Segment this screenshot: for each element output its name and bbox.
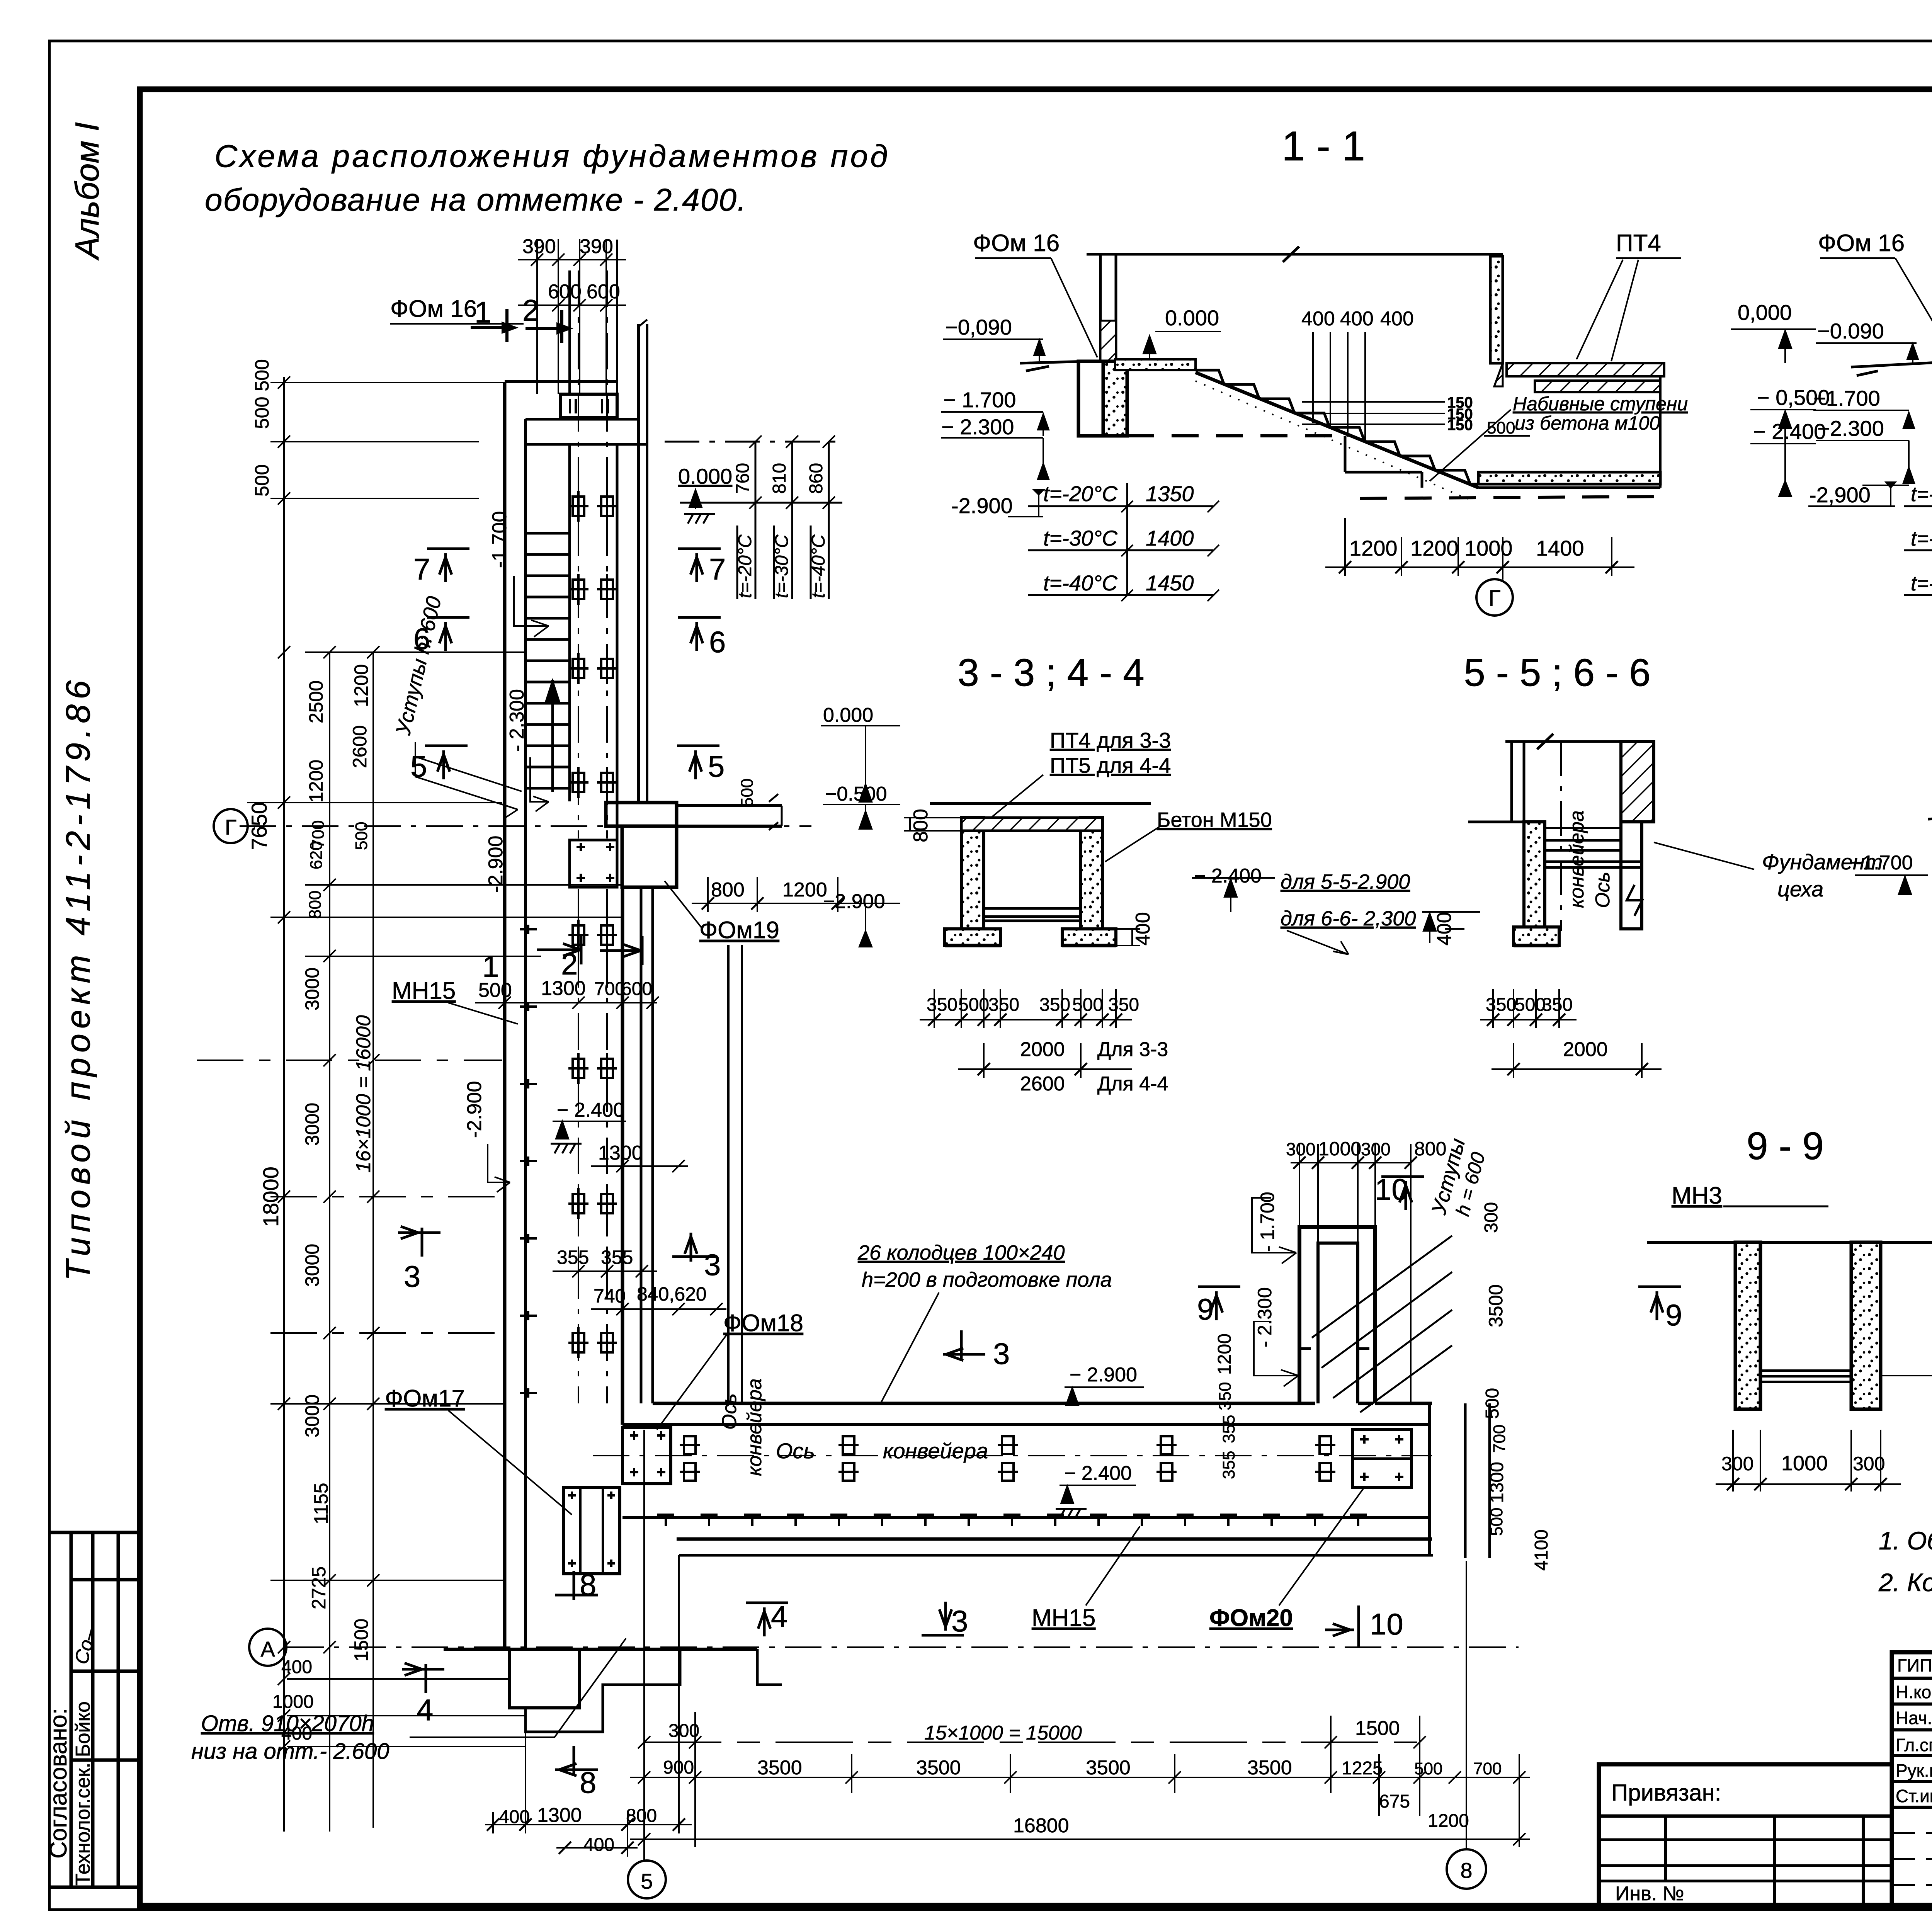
- svg-text:Н.контр.: Н.контр.: [1896, 1682, 1932, 1702]
- svg-text:2600: 2600: [349, 725, 371, 768]
- svg-text:0.000: 0.000: [678, 464, 732, 488]
- row 900 3500 ...: [630, 1777, 1530, 1778]
- svg-text:760: 760: [733, 463, 753, 494]
- foundation block: [1078, 361, 1103, 436]
- svg-text:МН3: МН3: [1672, 1182, 1722, 1209]
- svg-text:конвейера: конвейера: [883, 1439, 988, 1463]
- svg-text:400: 400: [583, 1835, 614, 1855]
- svg-text:1200: 1200: [1410, 536, 1459, 560]
- svg-text:3: 3: [951, 1604, 968, 1638]
- svg-text:− 2.400: − 2.400: [1194, 865, 1262, 887]
- svg-text:t=-20°C: t=-20°C: [1911, 483, 1932, 506]
- svg-text:Привязан:: Привязан:: [1611, 1780, 1721, 1806]
- svg-text:300: 300: [1853, 1453, 1885, 1475]
- svg-text:390: 390: [522, 235, 556, 258]
- svg-text:ФОм 16: ФОм 16: [1818, 230, 1905, 257]
- svg-text:9: 9: [1665, 1298, 1682, 1332]
- svg-text:3500: 3500: [1086, 1757, 1131, 1779]
- ФОм19 block: [727, 945, 730, 1403]
- conveyor bolts: [680, 1436, 700, 1481]
- 400 1300 800 row: [485, 1824, 692, 1825]
- svg-text:из бетона м100: из бетона м100: [1515, 412, 1660, 434]
- svg-text:t=-40°C: t=-40°C: [808, 534, 829, 598]
- svg-text:16×1000 = 16000: 16×1000 = 16000: [352, 1015, 375, 1173]
- svg-text:t=-30°C: t=-30°C: [1911, 527, 1932, 550]
- svg-text:400: 400: [1340, 308, 1374, 330]
- svg-text:400: 400: [1301, 308, 1335, 330]
- svg-text:800: 800: [626, 1806, 657, 1826]
- svg-text:8: 8: [1460, 1858, 1472, 1883]
- svg-text:1200: 1200: [350, 664, 372, 707]
- svg-text:500: 500: [738, 779, 757, 807]
- svg-text:ПТ4: ПТ4: [1616, 230, 1661, 257]
- svg-text:810: 810: [769, 463, 790, 494]
- svg-text:700: 700: [1473, 1759, 1502, 1778]
- stair walls: [568, 444, 571, 801]
- svg-text:350: 350: [1486, 995, 1517, 1015]
- svg-text:− 2.400: − 2.400: [1753, 419, 1826, 444]
- svg-text:t=-40°C: t=-40°C: [1911, 572, 1932, 595]
- 800 1200 dims above Г: [692, 877, 866, 912]
- svg-text:2: 2: [561, 947, 578, 981]
- svg-text:− 2.400: − 2.400: [557, 1099, 624, 1121]
- svg-text:500 500: 500 500: [251, 359, 273, 429]
- svg-text:низ на отт.- 2.600: низ на отт.- 2.600: [191, 1739, 389, 1764]
- section marks on bottom arm lower: [402, 1599, 968, 1799]
- conveyor: [1545, 827, 1621, 829]
- svg-text:-2.900: -2.900: [463, 1081, 486, 1138]
- svg-text:1200: 1200: [782, 879, 827, 901]
- svg-text:3: 3: [704, 1248, 721, 1282]
- svg-text:3000: 3000: [301, 968, 323, 1010]
- svg-text:5: 5: [641, 1869, 653, 1893]
- svg-text:1400: 1400: [1146, 526, 1194, 550]
- rotated chain dimension texts: [247, 359, 375, 1744]
- svg-text:Ось: Ось: [718, 1393, 741, 1430]
- svg-text:МН15: МН15: [392, 978, 456, 1004]
- svg-text:−1.700: −1.700: [1813, 386, 1880, 410]
- svg-text:1200: 1200: [1349, 536, 1398, 560]
- svg-text:Рук.гр.: Рук.гр.: [1896, 1760, 1932, 1781]
- anchor bolts vertical arm: [568, 491, 617, 1358]
- 500 dim: [1484, 435, 1530, 437]
- svg-text:16800: 16800: [1013, 1815, 1069, 1837]
- + block under stair: [570, 840, 617, 887]
- svg-text:400: 400: [499, 1807, 530, 1827]
- svg-text:3500: 3500: [757, 1757, 802, 1779]
- svg-text:ФОм 16: ФОм 16: [390, 296, 477, 322]
- svg-text:2500: 2500: [305, 680, 327, 723]
- top wall line with break: [1087, 247, 1503, 262]
- channel walls: [961, 818, 984, 929]
- svg-text:350: 350: [1039, 995, 1070, 1015]
- svg-text:Отв. 910×2070h: Отв. 910×2070h: [201, 1711, 374, 1736]
- bottom dims: [1344, 518, 1346, 576]
- 8 mark upper on arm: [555, 1568, 598, 1602]
- svg-text:-2.900: -2.900: [951, 493, 1013, 518]
- svg-text:Гл.спец: Гл.спец: [1896, 1735, 1932, 1755]
- svg-text:600: 600: [621, 979, 652, 999]
- svg-text:− 2.400: − 2.400: [1064, 1462, 1132, 1485]
- dim lines / labels of 1-1: [941, 258, 1816, 616]
- svg-text:3500: 3500: [916, 1757, 961, 1779]
- floor slab top: [1115, 359, 1196, 370]
- svg-text:500: 500: [1487, 1508, 1506, 1536]
- svg-text:350: 350: [988, 995, 1019, 1015]
- horizontal dim/tick lines: [270, 382, 561, 383]
- svg-text:400: 400: [1380, 308, 1414, 330]
- svg-text:2. Конструкцию пола ст. чер: 2. Конструкцию пола ст. чертежи марки АР…: [1878, 1568, 1932, 1597]
- svg-text:Типовой проект 411-2-179.86: Типовой проект 411-2-179.86: [59, 675, 97, 1281]
- svg-text:400: 400: [1132, 912, 1154, 946]
- svg-text:9 - 9: 9 - 9: [1747, 1124, 1824, 1168]
- svg-text:8: 8: [580, 1568, 596, 1602]
- tie-in box: [1599, 1764, 1892, 1906]
- svg-text:цеха: цеха: [1777, 877, 1823, 901]
- svg-text:6: 6: [709, 625, 726, 659]
- svg-text:Ось: Ось: [1592, 872, 1614, 908]
- pit dims: [1252, 1144, 1417, 1403]
- svg-text:- 2.300: - 2.300: [506, 689, 528, 752]
- bottom foundation shapes: [503, 1403, 507, 1649]
- svg-text:2600: 2600: [1020, 1073, 1065, 1095]
- svg-text:1000: 1000: [272, 1692, 314, 1712]
- ground line left: [1020, 361, 1086, 371]
- svg-text:t=-40°C: t=-40°C: [1043, 571, 1118, 595]
- svg-text:−0,090: −0,090: [945, 315, 1012, 339]
- svg-text:1: 1: [474, 295, 491, 329]
- left end block of conveyor: [622, 1428, 671, 1484]
- svg-text:500: 500: [1414, 1759, 1442, 1778]
- stair rungs: [526, 533, 570, 788]
- row 15x1000: [644, 1742, 1420, 1743]
- svg-text:t=-20°C: t=-20°C: [735, 534, 755, 598]
- svg-text:ПТ5 для 4-4: ПТ5 для 4-4: [1050, 753, 1171, 777]
- svg-text:150: 150: [1447, 417, 1473, 434]
- svg-text:t=-20°C: t=-20°C: [1043, 481, 1118, 506]
- ПТ4 leaders: [1616, 257, 1681, 259]
- svg-text:-2,900: -2,900: [1809, 483, 1871, 507]
- svg-text:1. Общие притечания ст. лис: 1. Общие притечания ст. лист . кж-14 .: [1879, 1526, 1932, 1555]
- svg-text:−2.300: −2.300: [1817, 416, 1884, 440]
- svg-text:3500: 3500: [1247, 1757, 1292, 1779]
- svg-text:1000: 1000: [1318, 1138, 1361, 1160]
- bottom dims: [934, 989, 935, 1028]
- svg-text:400: 400: [1433, 912, 1456, 946]
- svg-text:ГИП: ГИП: [1897, 1655, 1932, 1675]
- svg-text:1400: 1400: [1536, 536, 1584, 560]
- svg-text:− 2.900: − 2.900: [1070, 1364, 1137, 1386]
- svg-text:−1.700: −1.700: [1851, 852, 1913, 874]
- svg-text:h=200 в подготовке пола: h=200 в подготовке пола: [862, 1268, 1112, 1291]
- lower floor: [1478, 472, 1660, 484]
- svg-text:1225: 1225: [1342, 1758, 1383, 1779]
- svg-text:ФОм18: ФОм18: [723, 1310, 803, 1337]
- svg-text:МН15: МН15: [1032, 1605, 1095, 1631]
- svg-text:1300: 1300: [598, 1142, 643, 1164]
- svg-text:5 - 5 ; 6 - 6: 5 - 5 ; 6 - 6: [1464, 651, 1651, 694]
- svg-text:300: 300: [1361, 1139, 1391, 1159]
- svg-text:3000: 3000: [301, 1103, 323, 1146]
- svg-text:4: 4: [417, 1693, 433, 1727]
- svg-text:800: 800: [711, 879, 745, 901]
- svg-text:500: 500: [478, 979, 512, 1002]
- МН15 block (ФОм17): [563, 1488, 620, 1574]
- section marks 1,2 top: [471, 293, 573, 343]
- svg-text:500: 500: [958, 995, 989, 1015]
- svg-text:А: А: [260, 1637, 275, 1661]
- svg-text:для 6-6- 2,300: для 6-6- 2,300: [1281, 907, 1416, 930]
- section marks 9 / 10 near pit: [1197, 1172, 1682, 1648]
- svg-text:500: 500: [1482, 1388, 1503, 1419]
- svg-text:350: 350: [1542, 995, 1573, 1015]
- svg-text:−0.500: −0.500: [825, 783, 887, 805]
- svg-text:конвейера: конвейера: [1566, 810, 1588, 908]
- svg-text:− 1.700: − 1.700: [943, 388, 1016, 412]
- svg-text:800: 800: [910, 809, 932, 842]
- axis circles: [214, 809, 286, 1666]
- svg-text:-1.700: -1.700: [488, 511, 511, 568]
- svg-text:− 2.300: − 2.300: [941, 415, 1014, 439]
- svg-text:ФОм17: ФОм17: [385, 1385, 465, 1412]
- svg-text:10: 10: [1375, 1172, 1408, 1206]
- svg-text:t=-30°C: t=-30°C: [772, 534, 792, 598]
- svg-text:оборудование на отметке - 2.: оборудование на отметке - 2.400.: [205, 182, 747, 218]
- frost table 1-1: [1028, 483, 1219, 601]
- svg-text:Ст.инж.: Ст.инж.: [1896, 1786, 1932, 1806]
- svg-text:Технолог.сек. Бойко: Технолог.сек. Бойко: [72, 1701, 94, 1886]
- 3/3 section marks mid: [398, 1226, 721, 1293]
- svg-text:Альбом I: Альбом I: [69, 122, 106, 261]
- svg-text:3000: 3000: [301, 1395, 323, 1437]
- svg-text:355: 355: [1219, 1415, 1238, 1443]
- svg-text:7: 7: [413, 552, 430, 586]
- svg-text:10: 10: [1370, 1607, 1403, 1641]
- svg-text:ФОм19: ФОм19: [699, 917, 779, 944]
- stair steps: [1196, 370, 1493, 484]
- 400 dim verticals: [1312, 332, 1314, 423]
- svg-text:800: 800: [306, 891, 325, 919]
- svg-text:1300: 1300: [537, 1804, 582, 1827]
- svg-text:300: 300: [668, 1721, 699, 1741]
- svg-text:675: 675: [1379, 1791, 1410, 1812]
- stair up arrow: [551, 680, 554, 792]
- svg-text:400: 400: [281, 1657, 312, 1677]
- top pier block: [561, 394, 617, 418]
- svg-text:700: 700: [1490, 1425, 1509, 1453]
- svg-text:15×1000 = 15000: 15×1000 = 15000: [924, 1722, 1082, 1744]
- svg-text:1200: 1200: [1214, 1333, 1235, 1375]
- axes dash-dot: [240, 270, 1519, 1647]
- svg-text:Для 4-4: Для 4-4: [1097, 1073, 1168, 1095]
- svg-text:Бетон М150: Бетон М150: [1157, 808, 1272, 832]
- svg-text:6: 6: [413, 622, 430, 656]
- svg-text:860: 860: [806, 463, 827, 494]
- svg-text:4100: 4100: [1531, 1529, 1552, 1571]
- svg-text:700: 700: [594, 979, 625, 999]
- svg-text:3500: 3500: [1485, 1284, 1507, 1327]
- svg-text:26 колодцев 100×240: 26 колодцев 100×240: [857, 1241, 1065, 1264]
- lower right walls: [621, 887, 624, 1425]
- svg-text:−0.090: −0.090: [1817, 319, 1884, 343]
- svg-text:620: 620: [307, 841, 326, 869]
- svg-text:500: 500: [1515, 995, 1546, 1015]
- svg-text:355: 355: [601, 1247, 633, 1268]
- ticks: [278, 376, 379, 1753]
- svg-text:Г: Г: [225, 815, 236, 839]
- svg-text:18000: 18000: [259, 1167, 283, 1227]
- svg-text:Ось: Ось: [776, 1439, 815, 1463]
- svg-text:300: 300: [1286, 1139, 1316, 1159]
- svg-text:ФОм 16: ФОм 16: [973, 230, 1060, 257]
- svg-text:0.000: 0.000: [823, 704, 873, 726]
- section marks 7,6,5 left column: [410, 549, 726, 783]
- left column: [1099, 255, 1102, 361]
- svg-text:500: 500: [1072, 995, 1103, 1015]
- svg-text:1 - 1: 1 - 1: [1282, 122, 1365, 169]
- 500 1300 700 600 dims mid: [478, 977, 652, 1002]
- signature table: [1892, 1652, 1932, 1906]
- svg-text:-2.900: -2.900: [485, 836, 507, 893]
- svg-text:3000: 3000: [301, 1244, 323, 1287]
- svg-text:Нач.отд.: Нач.отд.: [1896, 1708, 1932, 1728]
- svg-text:0,000: 0,000: [1738, 300, 1792, 325]
- svg-text:300: 300: [1481, 1202, 1502, 1233]
- svg-text:3: 3: [404, 1259, 420, 1293]
- dashed lines: [1127, 434, 1345, 437]
- svg-text:355: 355: [1219, 1451, 1238, 1479]
- svg-text:- 2.300: - 2.300: [1254, 1287, 1276, 1347]
- svg-text:ПТ4 для 3-3: ПТ4 для 3-3: [1050, 728, 1171, 752]
- svg-text:Схема расположения фундамент: Схема расположения фундаментов под: [214, 139, 890, 174]
- svg-text:3 - 3 ; 4 - 4: 3 - 3 ; 4 - 4: [957, 651, 1145, 694]
- right column: [1490, 256, 1503, 363]
- svg-text:1: 1: [482, 949, 499, 983]
- bottom dimension rows: [485, 1430, 1530, 1898]
- svg-text:5: 5: [708, 749, 724, 783]
- dotted band under steps: [1196, 381, 1468, 499]
- svg-text:1200: 1200: [1428, 1811, 1469, 1831]
- svg-text:1300: 1300: [541, 977, 586, 1000]
- svg-text:500: 500: [251, 464, 273, 497]
- svg-text:Набивные ступени: Набивные ступени: [1513, 393, 1688, 415]
- svg-text:2000: 2000: [1563, 1038, 1608, 1061]
- right level marks: [1731, 328, 1816, 330]
- svg-text:8: 8: [580, 1765, 596, 1799]
- svg-text:9: 9: [1197, 1292, 1214, 1326]
- svg-text:1200: 1200: [305, 760, 327, 803]
- svg-text:Инв. №: Инв. №: [1615, 1883, 1684, 1905]
- svg-text:ФОм20: ФОм20: [1209, 1605, 1293, 1631]
- row 16800: [630, 1838, 1530, 1840]
- svg-text:0.000: 0.000: [1165, 306, 1219, 330]
- svg-text:600: 600: [587, 281, 620, 303]
- svg-text:2: 2: [522, 293, 539, 327]
- svg-text:1000: 1000: [1464, 536, 1513, 560]
- T marks row: [657, 1515, 1367, 1526]
- 3 mark on bottom arm top: [943, 1330, 1010, 1371]
- svg-text:Согласовано:: Согласовано:: [45, 1708, 72, 1859]
- svg-text:2000: 2000: [1020, 1038, 1065, 1061]
- svg-text:900: 900: [663, 1757, 694, 1778]
- svg-text:1450: 1450: [1146, 571, 1194, 595]
- svg-text:350: 350: [1216, 1382, 1235, 1410]
- svg-text:500: 500: [352, 822, 371, 850]
- svg-text:1300: 1300: [1487, 1462, 1507, 1503]
- right hatched slabs: [1494, 363, 1503, 386]
- svg-text:600: 600: [548, 281, 582, 303]
- agreement table: [49, 1532, 140, 1887]
- svg-text:740: 740: [594, 1285, 626, 1307]
- signature texts: [1896, 1655, 1932, 1806]
- svg-text:1500: 1500: [1355, 1717, 1400, 1740]
- svg-text:1500: 1500: [350, 1619, 372, 1662]
- H ticks on wall axis: [520, 925, 537, 1398]
- frost table 2-2: [1904, 483, 1932, 607]
- svg-text:конвейера: конвейера: [743, 1378, 766, 1476]
- svg-text:7650: 7650: [247, 802, 271, 850]
- Набивные leader: [1430, 410, 1511, 481]
- Г axis cross block: [606, 803, 677, 826]
- svg-text:3: 3: [993, 1337, 1010, 1371]
- svg-text:1000: 1000: [1781, 1452, 1828, 1475]
- svg-text:350: 350: [1108, 995, 1139, 1015]
- rotated frost-depth table (left of section 1-1): [665, 435, 842, 599]
- svg-text:500: 500: [1487, 418, 1515, 437]
- svg-text:Г: Г: [1488, 586, 1500, 611]
- svg-text:390: 390: [580, 235, 613, 258]
- svg-text:5: 5: [410, 749, 427, 783]
- svg-text:Для 3-3: Для 3-3: [1097, 1038, 1168, 1061]
- svg-text:1350: 1350: [1146, 481, 1194, 506]
- right end block ФОм20: [1352, 1430, 1412, 1488]
- svg-text:4: 4: [771, 1599, 787, 1633]
- svg-text:840,620: 840,620: [637, 1283, 707, 1305]
- svg-text:300: 300: [1721, 1453, 1753, 1475]
- svg-text:1155: 1155: [310, 1483, 332, 1524]
- svg-text:7: 7: [709, 552, 726, 586]
- upper right double wall: [637, 324, 640, 803]
- svg-text:t=-30°C: t=-30°C: [1043, 526, 1118, 550]
- svg-text:2725: 2725: [308, 1566, 330, 1609]
- svg-text:- 1.700: - 1.700: [1257, 1192, 1278, 1252]
- svg-text:350: 350: [927, 995, 957, 1015]
- svg-text:для 5-5-2.900: для 5-5-2.900: [1281, 870, 1410, 893]
- section marks 1,2 at bottom of upper zone: [482, 935, 642, 983]
